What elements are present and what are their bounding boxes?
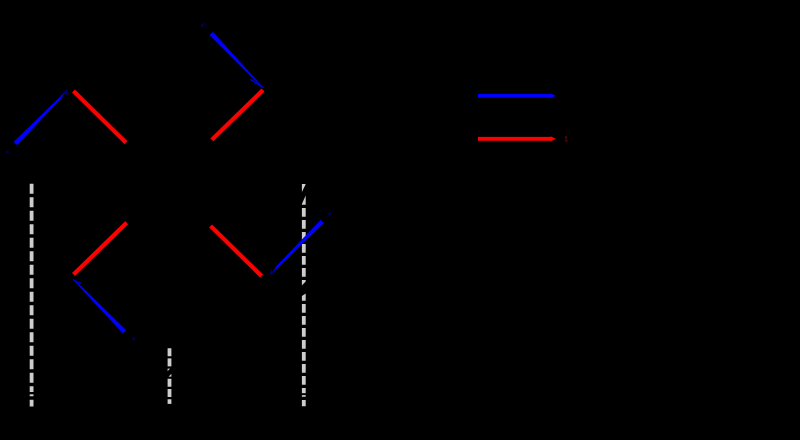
legend red arrowhead <box>550 136 556 141</box>
black notch band cutting right dashed line top <box>298 182 309 206</box>
blue velocity arrow B3 (into lower-left vertex) <box>73 280 126 334</box>
dashed worldline left (x=31.6) <box>30 184 34 407</box>
black notch band cutting right dashed line middle <box>299 281 310 297</box>
dashed worldline right (x=303.8) <box>302 184 306 406</box>
blue velocity arrow B1 (into upper-left vertex) <box>14 90 67 145</box>
legend blue arrowhead <box>550 93 556 98</box>
red trajectory line R1 (upper-left to lower-right) <box>74 91 262 276</box>
black mini gap in left dashed line <box>29 392 34 394</box>
faint blue remnant near B1 tail <box>6 151 9 154</box>
faint blue remnant near B4 tail <box>328 212 331 215</box>
faint red remnant near legend red tip lower <box>565 139 567 141</box>
black notch band cutting middle dashed line <box>165 364 176 381</box>
faint red remnant near legend red tip upper <box>565 136 567 138</box>
blue velocity arrow B2 (into upper-right vertex) <box>210 32 264 88</box>
central black ball covering crossing <box>111 123 230 242</box>
black mini gap in right dashed line <box>301 393 306 395</box>
legend blue arrow shaft <box>478 94 553 98</box>
faint blue remnant 2 near B2 tail <box>203 23 205 25</box>
blue velocity arrow B4 (into lower-right vertex) <box>271 220 324 275</box>
legend red arrow shaft <box>478 137 553 141</box>
faint blue remnant near B2 tail <box>201 24 204 27</box>
faint blue remnant near B3 tail <box>132 337 135 340</box>
red trajectory line R2 (lower-left to upper-right) <box>74 90 264 275</box>
dashed worldline middle (x=169.5) <box>168 348 172 404</box>
